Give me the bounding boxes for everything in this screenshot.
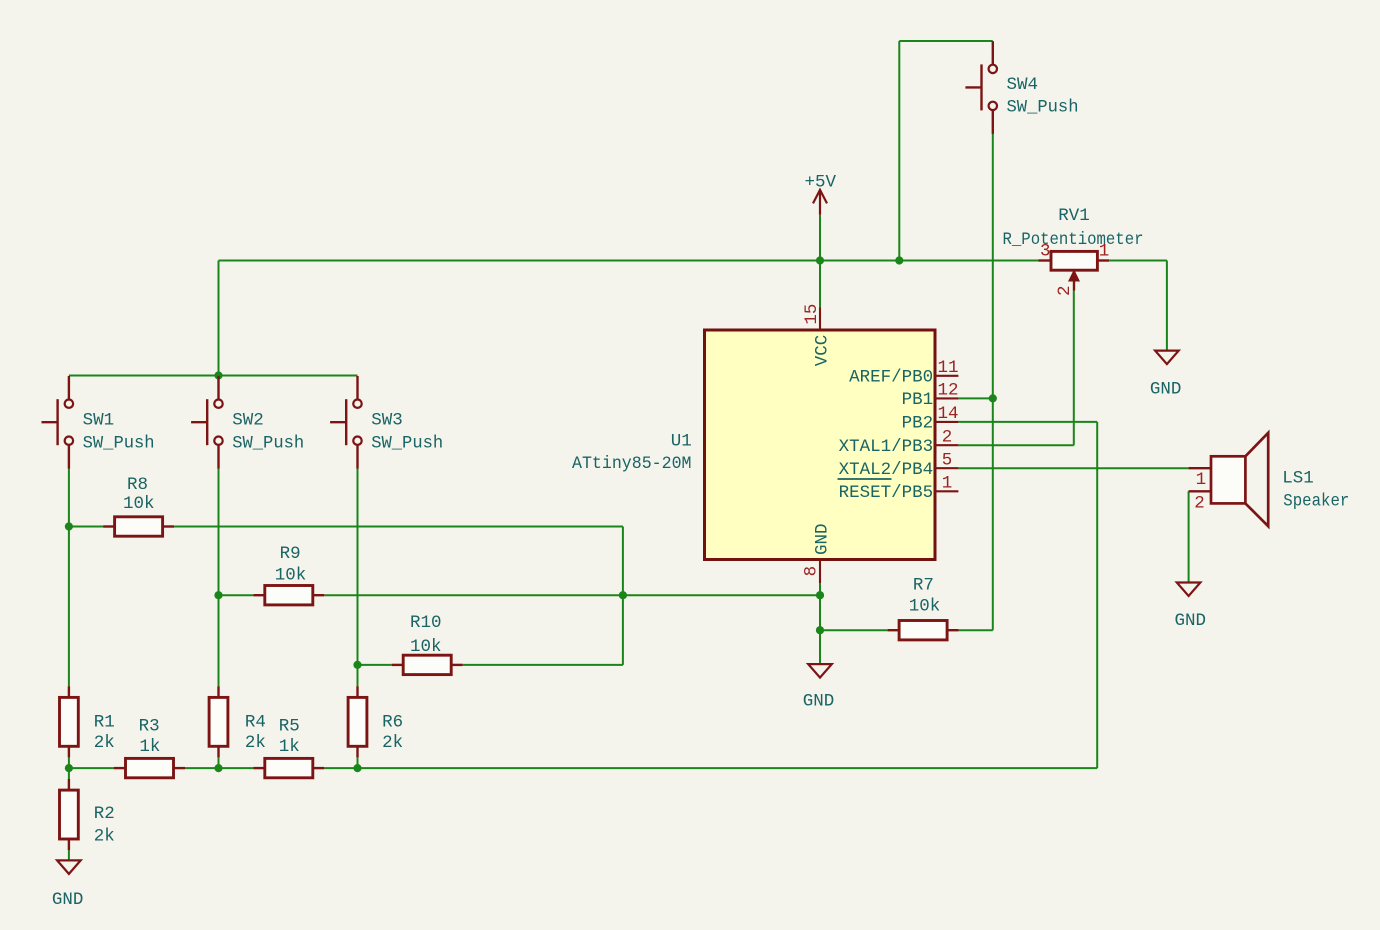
svg-text:R2: R2 [94, 804, 115, 824]
U1 RESET overbar [838, 478, 892, 480]
resistor R3 right stub [174, 767, 186, 769]
potentiometer RV1 wiper stem [1073, 281, 1075, 291]
switch SW4 actuator stem [965, 86, 981, 88]
wire R2 top from row [68, 768, 70, 779]
resistor R8 left stub [103, 525, 115, 527]
resistor R7 body [899, 621, 947, 640]
svg-text:SW4: SW4 [1007, 75, 1039, 95]
switch SW4 top contact circle [989, 65, 997, 73]
switch SW2 bottom pin [217, 445, 219, 469]
switch SW3 top contact circle [353, 400, 361, 408]
svg-text:R7: R7 [913, 575, 934, 595]
resistor R2 bottom stub [68, 839, 70, 850]
wire R8 row left [69, 526, 103, 528]
svg-text:5: 5 [942, 450, 953, 470]
svg-text:GND: GND [813, 523, 833, 555]
wire PB2 bottom return [358, 767, 1098, 769]
svg-text:R1: R1 [94, 713, 115, 733]
wire SW3 bottom vertical [357, 469, 359, 687]
svg-text:10k: 10k [275, 565, 307, 585]
potentiometer RV1 pin 1 stub [1097, 259, 1109, 261]
ground symbol [808, 664, 832, 678]
svg-text:1k: 1k [279, 737, 300, 757]
wire bottom row segment 2 [185, 767, 219, 769]
svg-text:2: 2 [1055, 285, 1075, 296]
IC U1 body [705, 330, 936, 560]
resistor R10 right stub [451, 664, 463, 666]
switch SW2 actuator stem [191, 421, 207, 423]
svg-text:8: 8 [801, 566, 821, 577]
speaker LS1 pin 2 stub [1189, 490, 1211, 492]
switch SW4 actuator bar [980, 64, 982, 110]
svg-text:R_Potentiometer: R_Potentiometer [1003, 230, 1144, 250]
resistor R9 body [265, 586, 313, 605]
svg-text:SW_Push: SW_Push [83, 433, 155, 453]
wire R6 bottom to row [357, 757, 359, 768]
speaker LS1 body box [1211, 456, 1245, 503]
resistor R4 bottom stub [217, 746, 219, 757]
svg-text:2: 2 [942, 427, 953, 447]
wire pot pin1 to right [1109, 260, 1167, 262]
svg-text:R5: R5 [279, 717, 300, 737]
junction row R4 [214, 764, 222, 772]
junction row R6 [353, 764, 361, 772]
wire SW4 top horizontal [899, 40, 993, 42]
potentiometer RV1 body [1051, 251, 1097, 270]
wire bottom row segment 3 [219, 767, 254, 769]
svg-text:11: 11 [938, 358, 959, 378]
svg-text:10k: 10k [123, 494, 155, 514]
wire R7 row right [959, 629, 993, 631]
switch SW4 top pin [992, 41, 994, 64]
junction U1 GND [816, 591, 824, 599]
switch SW1 top pin [68, 376, 70, 400]
resistor R8 body [115, 517, 163, 536]
svg-text:2k: 2k [94, 733, 115, 753]
wire center GND drop [819, 630, 821, 663]
wire R8 row right [174, 526, 623, 528]
switch SW3 bottom pin [356, 445, 358, 469]
power symbol +5V stem [819, 190, 821, 215]
svg-text:GND: GND [52, 890, 84, 910]
svg-text:2k: 2k [245, 733, 266, 753]
resistor R9 right stub [313, 594, 325, 596]
resistor R5 left stub [253, 767, 264, 769]
switch SW2 actuator bar [206, 399, 208, 445]
junction R9 left [214, 591, 222, 599]
wire switch top rail [69, 375, 358, 377]
potentiometer RV1 wiper arrow [1069, 271, 1079, 281]
wire SW4 left leg vertical [898, 41, 900, 261]
svg-text:XTAL1/PB3: XTAL1/PB3 [839, 437, 934, 457]
switch SW1 actuator bar [56, 399, 58, 445]
svg-text:VCC: VCC [813, 335, 833, 367]
junction +5V rail [816, 256, 824, 264]
svg-text:GND: GND [803, 692, 835, 712]
resistor R6 bottom stub [356, 746, 358, 757]
resistor R1 top stub [68, 686, 70, 697]
svg-text:U1: U1 [671, 432, 692, 452]
U1 pin 15 VCC line [819, 308, 821, 331]
wire R1 bottom to row [68, 757, 70, 768]
switch SW1 bottom pin [68, 445, 70, 469]
switch SW3 actuator stem [330, 421, 346, 423]
svg-text:R10: R10 [410, 613, 442, 633]
resistor R4 top stub [217, 686, 219, 697]
wire bottom row segment 4 [324, 767, 357, 769]
junction R10 left [353, 661, 361, 669]
resistor R9 left stub [253, 594, 264, 596]
resistor R3 body [126, 758, 174, 777]
resistor R10 body [403, 655, 451, 674]
wire GND junction vertical [819, 595, 821, 630]
resistor R6 body [348, 697, 367, 746]
resistor R7 right stub [947, 629, 959, 631]
svg-text:SW_Push: SW_Push [371, 433, 443, 453]
junction PB1 [989, 394, 997, 402]
svg-text:RV1: RV1 [1058, 206, 1090, 226]
svg-text:15: 15 [802, 304, 822, 325]
junction R9 mid [619, 591, 627, 599]
resistor R1 bottom stub [68, 746, 70, 757]
svg-text:12: 12 [938, 381, 959, 401]
svg-text:RESET/PB5: RESET/PB5 [839, 483, 934, 503]
wire R10 row left [358, 664, 392, 666]
ground symbol [57, 860, 81, 874]
switch SW1 top contact circle [65, 400, 73, 408]
U1 pin 12 line [935, 397, 958, 399]
speaker LS1 cone [1245, 433, 1268, 526]
switch SW4 bottom contact circle [989, 102, 997, 110]
svg-text:SW2: SW2 [232, 410, 264, 430]
U1 pin 1 line [935, 490, 958, 492]
wire XTAL2/PB4 to speaker [958, 467, 1188, 469]
wire PB2 horizontal [958, 421, 1097, 423]
switch SW3 actuator bar [345, 399, 347, 445]
switch SW1 actuator stem [42, 421, 58, 423]
resistor R7 left stub [888, 629, 900, 631]
svg-text:14: 14 [938, 404, 959, 424]
svg-text:2k: 2k [382, 733, 403, 753]
junction SW4 rail [895, 256, 903, 264]
resistor R5 right stub [313, 767, 325, 769]
wire speaker pin2 GND drop [1188, 491, 1190, 582]
switch SW2 bottom contact circle [214, 437, 222, 445]
wire SW4 bottom vertical to PB1 and R7 [992, 134, 994, 631]
wire XTAL1/PB3 horizontal [958, 444, 1073, 446]
svg-text:2: 2 [1194, 493, 1205, 513]
U1 pin 2 line [935, 444, 958, 446]
resistor R8 right stub [163, 525, 175, 527]
svg-text:GND: GND [1150, 379, 1182, 399]
resistor R2 top stub [68, 779, 70, 790]
wire PB1 to junction [958, 397, 992, 399]
svg-text:SW_Push: SW_Push [1007, 98, 1079, 118]
wire U1 GND pin to junction [819, 583, 821, 595]
junction R7 left [816, 626, 824, 634]
power symbol +5V arrow [813, 190, 827, 204]
svg-text:10k: 10k [410, 637, 442, 657]
switch SW3 bottom contact circle [353, 437, 361, 445]
resistor R5 body [265, 758, 313, 777]
ground symbol [1155, 351, 1179, 365]
U1 pin 8 GND line [819, 560, 821, 584]
svg-text:R4: R4 [245, 713, 266, 733]
wire R8 to R10 vertical [622, 527, 624, 665]
resistor R2 body [60, 790, 79, 839]
svg-text:1: 1 [1196, 470, 1207, 490]
switch SW2 top pin [217, 376, 219, 400]
svg-text:SW3: SW3 [371, 410, 403, 430]
wire SW1 bottom vertical [68, 469, 70, 687]
wire SW2 bottom vertical [218, 469, 220, 687]
svg-text:R9: R9 [280, 544, 301, 564]
svg-text:R6: R6 [382, 713, 403, 733]
svg-text:PB1: PB1 [902, 390, 934, 410]
U1 pin 5 line [935, 467, 958, 469]
svg-text:ATtiny85-20M: ATtiny85-20M [572, 454, 692, 474]
wire XTAL1/PB3 vertical to pot wiper [1073, 291, 1075, 446]
switch SW3 top pin [356, 376, 358, 400]
wire right GND drop [1166, 261, 1168, 351]
svg-text:AREF/PB0: AREF/PB0 [849, 368, 933, 388]
wire R4 bottom to row [218, 757, 220, 768]
wire +5V stem [819, 215, 821, 261]
potentiometer RV1 pin 3 stub [1039, 259, 1052, 261]
ground symbol [1177, 583, 1201, 597]
svg-text:10k: 10k [909, 597, 941, 617]
wire R10 row right [463, 664, 623, 666]
resistor R3 left stub [114, 767, 126, 769]
speaker LS1 pin 1 stub [1189, 467, 1211, 469]
svg-text:PB2: PB2 [902, 414, 934, 434]
wire VCC rail horizontal [219, 260, 1041, 262]
wire PB2 right vertical [1096, 422, 1098, 768]
resistor R4 body [209, 697, 228, 746]
svg-text:SW_Push: SW_Push [232, 433, 304, 453]
svg-text:GND: GND [1175, 611, 1207, 631]
wire VCC rail left vertical drop [218, 261, 220, 376]
junction row R1 [65, 764, 73, 772]
junction R8 left [65, 522, 73, 530]
junction switch rail [214, 371, 222, 379]
svg-text:R8: R8 [127, 475, 148, 495]
wire R9 row right [324, 594, 820, 596]
svg-text:+5V: +5V [805, 172, 837, 192]
switch SW4 bottom pin [992, 110, 994, 134]
svg-text:SW1: SW1 [83, 410, 115, 430]
U1 pin 11 line [935, 375, 958, 377]
svg-text:XTAL2/PB4: XTAL2/PB4 [839, 460, 934, 480]
svg-text:R3: R3 [139, 717, 160, 737]
resistor R6 top stub [356, 686, 358, 697]
wire R2 bottom GND stem [68, 850, 70, 860]
svg-text:Speaker: Speaker [1283, 491, 1349, 511]
wire VCC pin drop to U1 [819, 261, 821, 308]
wire R7 row left [820, 629, 888, 631]
switch SW2 top contact circle [214, 400, 222, 408]
wire bottom row segment 1 [69, 767, 114, 769]
svg-text:1k: 1k [139, 737, 160, 757]
resistor R10 left stub [392, 664, 404, 666]
wire R9 row left [219, 594, 254, 596]
resistor R1 body [60, 697, 79, 746]
svg-text:LS1: LS1 [1282, 469, 1314, 489]
U1 pin 14 line [935, 421, 958, 423]
svg-text:1: 1 [942, 473, 953, 493]
svg-text:2k: 2k [94, 826, 115, 846]
switch SW1 bottom contact circle [65, 437, 73, 445]
